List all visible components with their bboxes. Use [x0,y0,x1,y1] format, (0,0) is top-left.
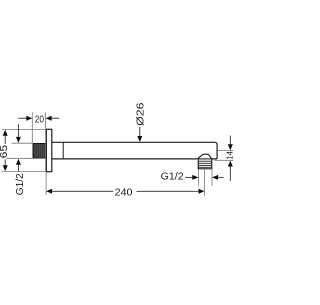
svg-text:G1/2: G1/2 [161,172,184,183]
node: leader Ø26 (arm diameter) [135,102,146,142]
node: dim 20 (stub length) [18,112,59,171]
wire: arm joint line [62,142,64,159]
node: dim 14 (outlet offset) [215,136,235,181]
node: wall flange plate [46,129,52,171]
wire: arm tube outline [52,142,217,159]
svg-text:65: 65 [0,144,10,158]
node: outlet thread band [198,159,212,169]
node: dim G1/2 outlet thread [161,170,224,187]
svg-text:20: 20 [35,115,45,126]
node: dim G1/2 wall thread [7,124,34,195]
node: outlet dome [197,154,211,159]
svg-text:14: 14 [224,151,234,160]
svg-text:240: 240 [115,187,133,198]
node: dim 65 (flange height) [0,130,45,172]
node: dim 240 (arm length) [46,170,205,199]
svg-text:Ø26: Ø26 [135,102,146,126]
node: wall thread stub (hatched) [33,144,46,159]
svg-text:G1/2: G1/2 [15,173,26,195]
